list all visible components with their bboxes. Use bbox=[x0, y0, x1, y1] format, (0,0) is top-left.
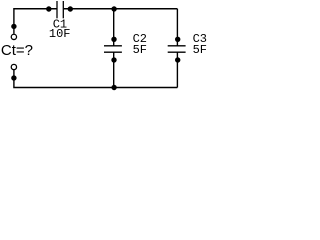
wire bottom rail right segment bbox=[114, 87, 177, 89]
junction top terminal node bbox=[11, 24, 16, 29]
svg-text:Ct=?: Ct=? bbox=[1, 42, 33, 59]
wire C2 top lead bbox=[113, 9, 115, 46]
junction C1 right lead dot bbox=[68, 6, 73, 11]
capacitor C3 bbox=[168, 46, 186, 52]
junction C1 left lead dot bbox=[46, 6, 51, 11]
wire C3 bottom lead bbox=[176, 52, 178, 87]
junction C3 lower lead dot bbox=[175, 57, 180, 62]
capacitor C1 bbox=[57, 1, 63, 18]
wire top-left corner to C1 left plate bbox=[14, 9, 57, 25]
junction C2 upper lead dot bbox=[111, 37, 116, 42]
svg-text:5F: 5F bbox=[133, 43, 147, 57]
terminal bottom (open circle) bbox=[11, 64, 16, 69]
svg-text:5F: 5F bbox=[193, 43, 207, 57]
wire stub from bottom terminal bbox=[13, 70, 15, 78]
svg-text:10F: 10F bbox=[49, 27, 71, 41]
junction C2 bottom node bbox=[111, 85, 116, 90]
wire bottom-left corner to C2 bottom bbox=[14, 78, 114, 88]
wire C2 bottom lead bbox=[113, 52, 115, 87]
wire C3 top lead bbox=[176, 9, 178, 46]
junction C2 lower lead dot bbox=[111, 57, 116, 62]
wire stub to top terminal bbox=[13, 26, 15, 33]
junction bottom terminal node bbox=[11, 75, 16, 80]
junction C3 upper lead dot bbox=[175, 37, 180, 42]
junction C2 top node bbox=[111, 6, 116, 11]
capacitor C2 bbox=[104, 46, 122, 52]
terminal top (open circle) bbox=[11, 34, 16, 39]
wire C1 right plate to top-right corner bbox=[64, 8, 178, 10]
